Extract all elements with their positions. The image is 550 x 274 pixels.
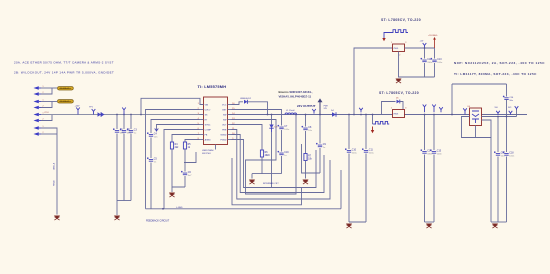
wire xyxy=(452,83,507,85)
wire xyxy=(405,114,470,116)
svg-text:SW: SW xyxy=(223,119,226,121)
diode D5 xyxy=(397,100,400,104)
power net flag xyxy=(76,108,80,115)
capacitor C5 xyxy=(147,157,157,163)
svg-text:3: 3 xyxy=(405,42,406,44)
svg-text:L-GND: L-GND xyxy=(176,207,183,209)
svg-text:330n: 330n xyxy=(427,62,433,64)
diode D4 xyxy=(332,112,336,117)
U1 right pin 14 xyxy=(228,114,232,116)
wire xyxy=(41,87,57,89)
connector J1 pin A xyxy=(34,86,44,90)
junction xyxy=(319,114,321,116)
wire xyxy=(41,101,57,103)
ferrite bead FB1 xyxy=(391,30,408,33)
power net flag xyxy=(92,109,96,115)
svg-text:F2 D5A LF: F2 D5A LF xyxy=(60,100,70,103)
junction xyxy=(140,114,142,116)
wire xyxy=(130,115,132,130)
regulator U4 (SOT-223) xyxy=(470,108,482,126)
wire xyxy=(424,63,426,77)
svg-text:220u: 220u xyxy=(369,152,375,154)
junction xyxy=(497,116,499,118)
U1 left pin 2 xyxy=(200,109,204,111)
svg-text:C19: C19 xyxy=(284,152,289,154)
capacitor C10 xyxy=(345,148,357,154)
wire xyxy=(271,132,273,188)
junction xyxy=(372,114,374,116)
junction xyxy=(451,114,453,116)
wire xyxy=(424,115,426,151)
resistor R5 xyxy=(183,142,191,149)
wire xyxy=(41,115,52,121)
U1 left pin 8 xyxy=(200,139,204,141)
connector J4 pin A xyxy=(34,126,44,130)
wire xyxy=(475,126,477,138)
svg-text:3V3: 3V3 xyxy=(508,107,511,109)
svg-text:1: 1 xyxy=(391,42,392,44)
resistor R4 xyxy=(170,142,179,149)
power net flag xyxy=(515,106,519,109)
svg-text:2: 2 xyxy=(399,55,400,57)
svg-text:20A, ACE ETHER 50/75 OHM, TT/T: 20A, ACE ETHER 50/75 OHM, TT/T CAMERA & … xyxy=(14,61,114,65)
wire xyxy=(382,102,396,115)
svg-text:GND_A: GND_A xyxy=(53,162,56,170)
wire xyxy=(184,152,196,163)
arrow down (aux) xyxy=(372,127,374,131)
junction xyxy=(295,114,297,116)
wire xyxy=(41,114,204,116)
wire xyxy=(150,138,152,159)
junction xyxy=(123,114,125,116)
wire xyxy=(348,115,350,150)
wire xyxy=(482,114,528,116)
svg-text:L1 15uH: L1 15uH xyxy=(286,110,295,112)
svg-text:1: 1 xyxy=(391,108,392,110)
capacitor C7 xyxy=(278,125,290,131)
inductor L1 xyxy=(285,113,297,115)
junction xyxy=(424,114,426,116)
wire xyxy=(497,157,499,223)
svg-text:C15: C15 xyxy=(437,151,442,153)
svg-text:SW: SW xyxy=(223,114,226,116)
U1 left pin 1 xyxy=(200,104,204,106)
wire xyxy=(185,140,200,143)
junction xyxy=(360,114,362,116)
diode D1 xyxy=(98,112,105,117)
junction xyxy=(305,114,307,116)
junction xyxy=(116,114,118,116)
wire xyxy=(490,138,492,223)
diode D2 (bias) xyxy=(244,100,247,104)
wire xyxy=(399,52,435,78)
power net flag xyxy=(423,105,427,113)
wire xyxy=(164,130,200,209)
capacitor C17 xyxy=(494,151,506,157)
wire xyxy=(464,111,466,115)
wire xyxy=(184,176,186,187)
svg-text:INTERMED CKT: INTERMED CKT xyxy=(263,183,279,185)
wire xyxy=(506,157,508,223)
junction xyxy=(365,114,367,116)
wire xyxy=(171,187,173,192)
wire xyxy=(424,48,426,59)
wire xyxy=(41,88,52,94)
connector J4 pin B xyxy=(34,132,44,136)
U1 right pin 9 xyxy=(228,139,232,141)
wire xyxy=(146,110,200,209)
wire xyxy=(319,115,321,144)
svg-text:100n: 100n xyxy=(284,129,290,131)
fuse F1 xyxy=(58,87,74,91)
wire xyxy=(232,135,325,193)
svg-text:D5: D5 xyxy=(396,98,398,100)
junction xyxy=(162,208,164,210)
capacitor C12 xyxy=(421,58,433,64)
wire xyxy=(281,156,283,174)
wire xyxy=(319,148,321,173)
svg-text:F1 D5A LF: F1 D5A LF xyxy=(60,87,70,90)
capacitor C1 xyxy=(113,128,124,134)
wire xyxy=(433,155,435,223)
wire xyxy=(373,123,375,125)
wire xyxy=(281,130,283,152)
wire xyxy=(497,117,499,153)
wire xyxy=(157,125,200,132)
diode D3 (TVS) xyxy=(269,125,273,133)
wire xyxy=(462,117,492,138)
svg-text:VISHAY, IHLP4040DZ-11: VISHAY, IHLP4040DZ-11 xyxy=(279,95,312,99)
svg-text:SW PSU: SW PSU xyxy=(202,153,211,155)
connector J2 pin B xyxy=(34,105,44,109)
svg-text:7805: 7805 xyxy=(393,48,399,50)
power net flag xyxy=(432,105,436,113)
wire xyxy=(272,150,317,188)
svg-text:UVLO: UVLO xyxy=(205,109,211,111)
svg-text:AGND: AGND xyxy=(205,138,212,141)
svg-text:100n: 100n xyxy=(437,62,443,64)
capacitor C16 xyxy=(503,96,514,102)
capacitor C11 xyxy=(362,148,374,154)
wire xyxy=(424,155,426,223)
wire xyxy=(354,48,393,115)
resistor R7 xyxy=(304,154,313,161)
wire xyxy=(348,154,350,223)
wire xyxy=(232,140,272,188)
junction xyxy=(433,114,435,116)
ground xyxy=(54,216,60,221)
svg-text:2B: W/LOCKOUT, 24V 14P 14A PWR: 2B: W/LOCKOUT, 24V 14P 14A PWR TR 5,000V… xyxy=(14,71,114,75)
wire xyxy=(405,47,435,49)
wire xyxy=(372,115,374,125)
wire xyxy=(151,120,200,134)
wire xyxy=(232,130,331,200)
wire xyxy=(116,201,118,216)
wire xyxy=(228,114,393,116)
U1 right pin 11 xyxy=(228,129,232,131)
capacitor C18 xyxy=(503,151,515,157)
capacitor C3 xyxy=(127,128,137,134)
capacitor C8 xyxy=(302,126,313,132)
wire xyxy=(305,131,307,154)
wire xyxy=(482,116,517,118)
wire xyxy=(516,109,518,117)
svg-text:TI: LM5575MH: TI: LM5575MH xyxy=(198,84,227,89)
wire xyxy=(506,84,508,97)
regulator U3 xyxy=(393,110,405,118)
ground xyxy=(346,224,352,229)
svg-text:VCC: VCC xyxy=(222,104,227,106)
svg-text:SGND: SGND xyxy=(220,134,227,136)
wire xyxy=(116,115,118,130)
svg-text:U4: U4 xyxy=(468,106,470,108)
ground xyxy=(395,79,401,84)
wire xyxy=(433,115,435,151)
wire xyxy=(434,63,436,77)
wire xyxy=(117,200,131,202)
svg-text:PRE: PRE xyxy=(222,129,227,131)
ground xyxy=(169,193,175,198)
wire xyxy=(41,133,57,135)
svg-text:24V OUTPUT: 24V OUTPUT xyxy=(297,104,316,108)
svg-text:LM5575MH: LM5575MH xyxy=(202,150,214,152)
wire xyxy=(232,158,302,205)
wire xyxy=(116,134,118,201)
ground xyxy=(426,224,432,229)
wire xyxy=(340,170,342,209)
op-amp U1 (switching regulator IC) xyxy=(204,97,228,145)
power net flag xyxy=(312,109,316,114)
junction xyxy=(506,116,508,118)
capacitor C6 xyxy=(181,171,192,177)
svg-text:+24V: +24V xyxy=(75,106,81,108)
power net flag xyxy=(496,111,500,115)
svg-text:NXP: NX2112C25Z, 2A, SOT-223,: NXP: NX2112C25Z, 2A, SOT-223, -40C TO 12… xyxy=(454,61,545,65)
wire xyxy=(434,48,436,59)
junction xyxy=(271,114,273,116)
U1 right pin 10 xyxy=(228,134,232,136)
wire xyxy=(252,173,282,175)
connector J3 pin B xyxy=(34,118,44,122)
wire xyxy=(384,33,391,39)
wire xyxy=(215,145,217,150)
power net flag xyxy=(463,108,467,112)
junction xyxy=(267,114,269,116)
wire xyxy=(232,115,297,195)
svg-text:C14: C14 xyxy=(427,151,432,153)
svg-text:SYNC: SYNC xyxy=(205,124,211,126)
wire xyxy=(425,221,435,223)
svg-text:3: 3 xyxy=(405,108,406,110)
capacitor C9 xyxy=(316,143,326,149)
svg-text:+5V REG: +5V REG xyxy=(428,35,438,37)
svg-text:49k9: 49k9 xyxy=(265,155,271,157)
U1 right pin 16 xyxy=(228,104,232,106)
svg-text:Bourns SDR1307-331KL,: Bourns SDR1307-331KL, xyxy=(279,90,313,94)
svg-text:VIN1: VIN1 xyxy=(44,112,50,114)
wire xyxy=(232,102,244,105)
resistor R6 xyxy=(260,150,270,157)
capacitor C15 xyxy=(430,149,442,155)
svg-text:LM4040-D2: LM4040-D2 xyxy=(240,98,252,100)
svg-text:100n: 100n xyxy=(437,153,443,155)
wire xyxy=(123,134,125,201)
svg-text:+5V: +5V xyxy=(420,41,424,43)
wire xyxy=(251,174,253,179)
wire xyxy=(365,115,367,150)
wire xyxy=(305,161,307,179)
connector J2 pin A xyxy=(34,99,44,103)
wire xyxy=(302,144,321,173)
svg-text:C18: C18 xyxy=(509,153,514,155)
svg-text:7805: 7805 xyxy=(393,114,399,116)
svg-text:COMP: COMP xyxy=(205,129,212,131)
power net flag xyxy=(423,43,427,48)
U1 left pin 5 xyxy=(200,124,204,126)
svg-text:ST: L7805CV, TO-220: ST: L7805CV, TO-220 xyxy=(379,91,419,95)
fuse F2 xyxy=(58,100,74,104)
power net flag xyxy=(439,107,443,112)
wire xyxy=(247,102,267,115)
wire xyxy=(506,99,508,116)
U1 left pin 7 xyxy=(200,134,204,136)
svg-text:OUT: OUT xyxy=(222,124,227,126)
junction xyxy=(353,114,355,116)
wire xyxy=(56,134,58,215)
U1 right pin 13 xyxy=(228,119,232,121)
wire xyxy=(41,102,52,108)
power net flag xyxy=(509,111,513,115)
ground xyxy=(492,224,498,229)
svg-text:5V0: 5V0 xyxy=(495,107,498,109)
wire xyxy=(41,128,57,134)
wire xyxy=(491,221,507,223)
wire xyxy=(400,102,403,110)
regulator U2 xyxy=(393,44,405,52)
wire xyxy=(232,110,282,126)
svg-text:C13: C13 xyxy=(437,59,442,61)
svg-text:C10: C10 xyxy=(352,150,357,152)
capacitor C4 xyxy=(147,132,158,138)
ground xyxy=(249,180,255,185)
U1 right pin 15 xyxy=(228,109,232,111)
svg-text:VIN: VIN xyxy=(205,104,209,106)
svg-text:ST: L7805CV, TO-220: ST: L7805CV, TO-220 xyxy=(381,18,421,22)
wire xyxy=(150,163,152,209)
junction xyxy=(424,47,426,49)
U1 right pin 12 xyxy=(228,124,232,126)
wire xyxy=(271,115,273,125)
wire xyxy=(365,154,367,223)
wire xyxy=(130,134,132,201)
wire xyxy=(141,98,204,114)
svg-text:FEEDBACK CIRCUIT: FEEDBACK CIRCUIT xyxy=(146,220,170,223)
svg-text:SHLD: SHLD xyxy=(54,180,56,186)
ground xyxy=(114,216,120,221)
power arrow xyxy=(433,37,436,48)
connector J3 pin A xyxy=(34,112,44,116)
U1 left pin 3 xyxy=(200,114,204,116)
capacitor C14 xyxy=(421,149,433,155)
U1 left pin 6 xyxy=(200,129,204,131)
capacitor C19 xyxy=(278,151,290,157)
svg-text:PGND: PGND xyxy=(220,139,227,141)
wire xyxy=(261,157,263,174)
wire xyxy=(451,84,453,115)
wire xyxy=(506,117,508,153)
power net flag xyxy=(359,108,363,113)
wire xyxy=(146,208,342,210)
svg-text:220u: 220u xyxy=(352,152,358,154)
junction xyxy=(130,114,132,116)
wire xyxy=(123,115,125,130)
capacitor C2 xyxy=(120,128,131,134)
svg-text:TI: LM1117T, 800MA, SOT-223, -: TI: LM1117T, 800MA, SOT-223, -40C TO 125… xyxy=(454,72,537,76)
capacitor C13 xyxy=(431,58,443,64)
wire xyxy=(232,125,263,151)
power arrow output (net flag) xyxy=(318,98,323,114)
power net flag xyxy=(122,108,126,115)
connector J1 pin B xyxy=(34,92,44,96)
wire xyxy=(184,149,186,172)
svg-text:C11: C11 xyxy=(369,150,374,152)
svg-text:100n: 100n xyxy=(509,155,515,157)
junction xyxy=(348,114,350,116)
power net flag xyxy=(155,129,159,131)
wire xyxy=(172,149,185,187)
U1 left pin 4 xyxy=(200,119,204,121)
wire xyxy=(172,135,200,143)
wire xyxy=(305,115,307,127)
ground xyxy=(302,180,308,185)
wire xyxy=(349,221,366,223)
